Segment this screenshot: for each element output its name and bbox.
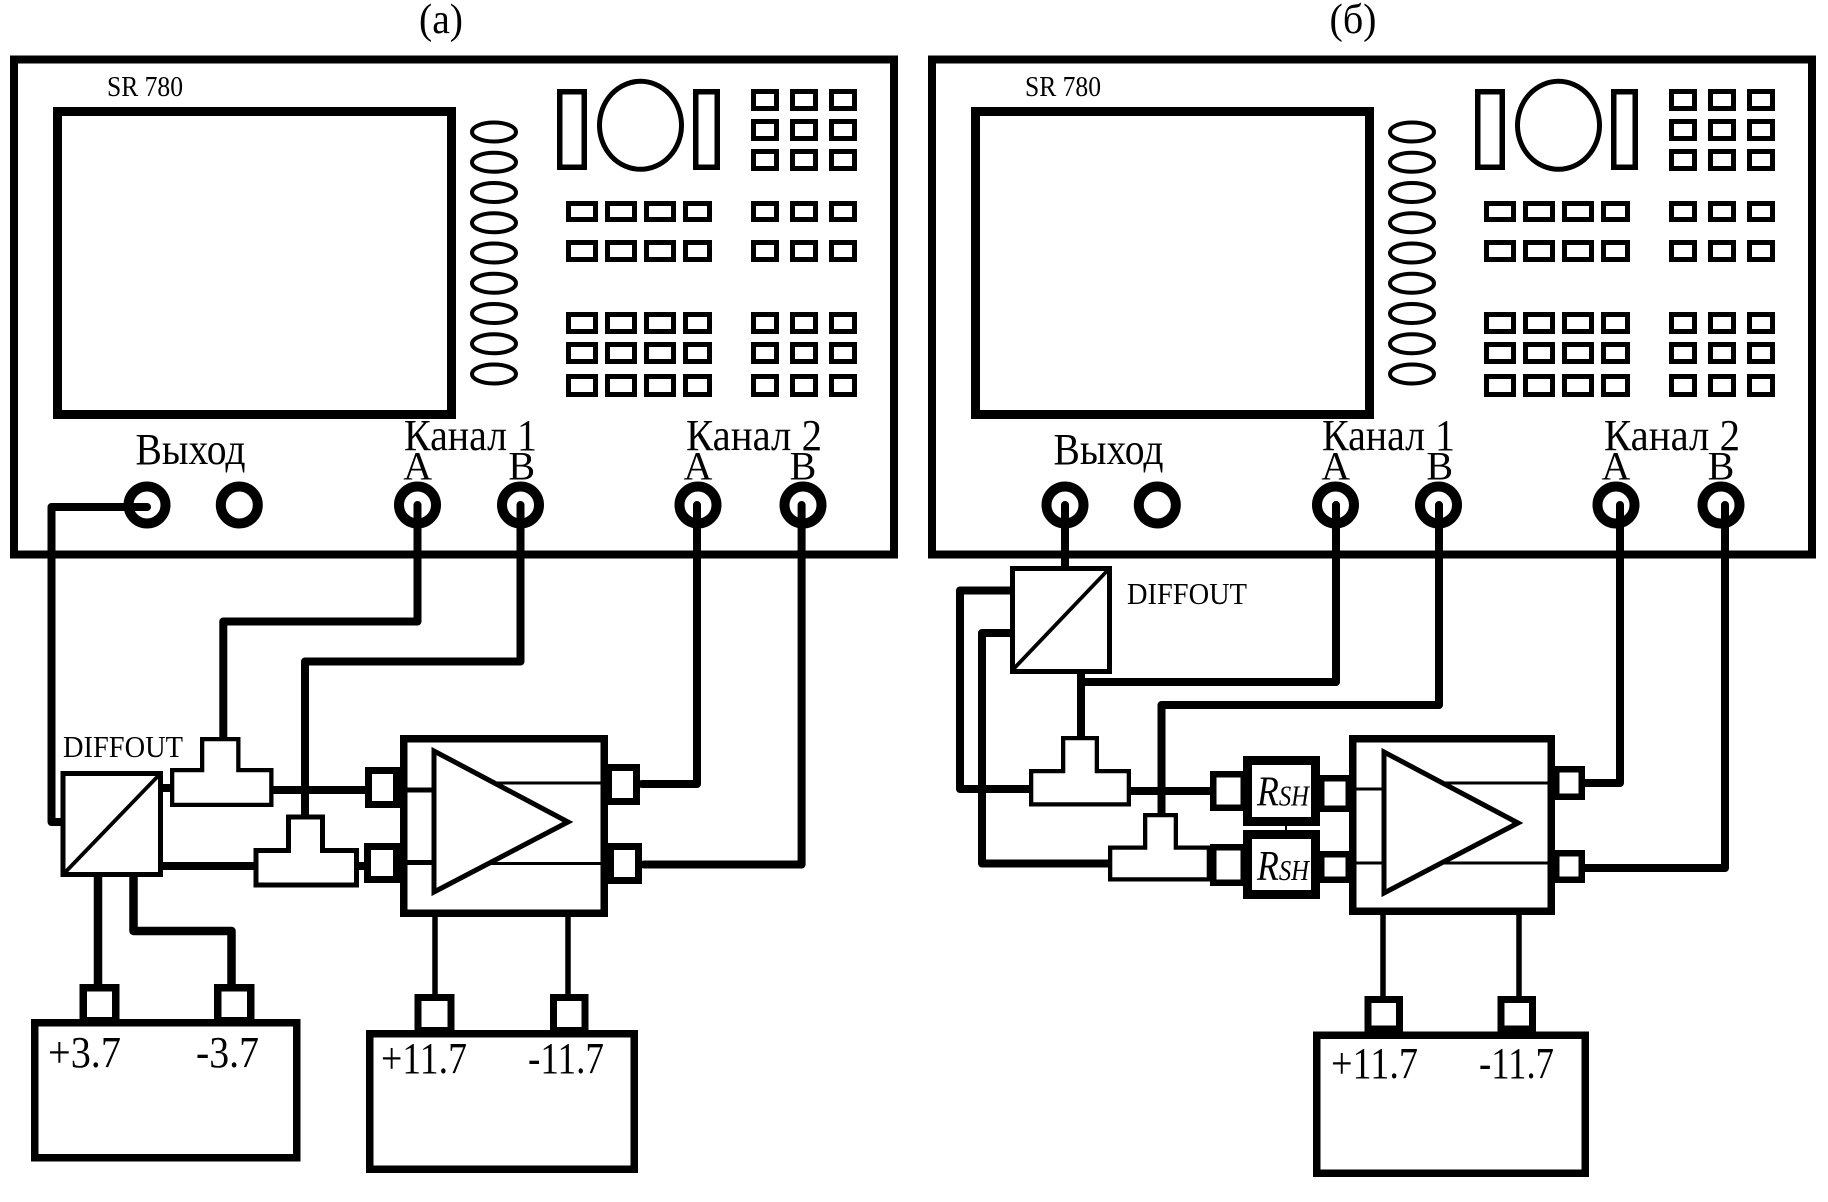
resistor RSH1 box (1248, 761, 1316, 822)
battery box 11.7V (b) (1317, 1035, 1586, 1173)
resistor RSH1 left port (1213, 774, 1244, 808)
amplifier output port top (a) (609, 768, 637, 802)
wire: Vyhod(a) to DIFFOUT(a) input (52, 507, 148, 822)
amplifier triangle (b) (1384, 752, 1518, 893)
instrument panel (a) SR 780 (14, 60, 894, 555)
amplifier inner rail top-right (a) (490, 782, 606, 785)
wire: DIFFOUT(a) upper output to T1 (160, 784, 180, 792)
svg-text:+11.7: +11.7 (381, 1034, 467, 1083)
T-splitter 2 (a) (256, 817, 357, 885)
wire: DIFFOUT(b) bottom pin to T1(b) stem (1077, 672, 1085, 741)
amplifier inner rail bottom-left (b) (1353, 862, 1386, 865)
amplifier inner rail bottom-right (b) (1438, 862, 1551, 865)
amplifier output port top (b) (1556, 769, 1582, 797)
T-splitter 2 (b) (1110, 815, 1209, 879)
svg-text:DIFFOUT: DIFFOUT (1127, 576, 1247, 611)
battery terminal +3.7 (83, 988, 116, 1021)
svg-text:(б): (б) (1330, 0, 1377, 43)
wire: Kanal1 B (b) to T2(b) stem (1162, 505, 1440, 818)
battery terminal -3.7 (218, 988, 251, 1021)
T-splitter 1 (b) (1031, 738, 1129, 804)
resistor RSH2 box (1248, 835, 1316, 895)
wire: Kanal2 B (b) to amplifier(b) output bottom (1582, 505, 1725, 868)
amplifier input port bottom (a) (368, 847, 397, 880)
amplifier output port bottom (b) (1556, 853, 1582, 880)
resistor RSH1 right port (1321, 778, 1349, 809)
wire: Vyhod(b) to DIFFOUT(b) (1061, 505, 1069, 572)
DIFFOUT box (b) (1013, 569, 1110, 672)
DIFFOUT diagonal (a) (65, 775, 160, 874)
wire: amplifier(a) +supply pin (432, 915, 438, 1000)
wire: Kanal2 B (a) to amplifier output bottom (644, 505, 802, 865)
battery box 3.7V (a) (35, 1023, 297, 1158)
svg-text:DIFFOUT: DIFFOUT (63, 729, 183, 764)
wire: Kanal1 A (b) down to junction (1081, 505, 1336, 682)
resistor RSH2 left port (1213, 847, 1244, 883)
svg-text:+3.7: +3.7 (48, 1028, 121, 1077)
amplifier triangle (a) (434, 751, 568, 892)
wire: DIFFOUT(b) lower-left output loop to T2(b) (982, 633, 1116, 864)
amplifier inner rail top-left (a) (404, 788, 436, 793)
wire: amplifier(a) -supply pin (565, 915, 571, 1000)
DIFFOUT box (a) (63, 774, 161, 875)
T-splitter 1 (a) (172, 739, 271, 805)
wire: amplifier(b) +supply pin (1380, 913, 1386, 1000)
wire: T1(a) output to amplifier input top (268, 786, 369, 794)
wire: Kanal1 B (a) to T-splitter 2 stem (305, 505, 521, 819)
wire: amplifier(b) -supply pin (1516, 913, 1522, 1000)
amplifier input port top (a) (369, 771, 397, 805)
battery terminal +11.7 (b) (1368, 1000, 1400, 1030)
RSH link line (1285, 822, 1287, 834)
resistor RSH2 right port (1321, 854, 1349, 880)
battery terminal -11.7 (b) (1501, 1000, 1533, 1030)
wire: DIFFOUT(a) -supply pin (134, 875, 232, 988)
svg-text:-11.7: -11.7 (528, 1034, 604, 1083)
svg-text:-3.7: -3.7 (196, 1028, 259, 1077)
svg-text:+11.7: +11.7 (1331, 1039, 1418, 1088)
amplifier box (a) (404, 739, 605, 914)
DIFFOUT diagonal (b) (1013, 571, 1108, 670)
svg-text:(а): (а) (419, 0, 463, 43)
battery terminal -11.7 (a) (554, 998, 586, 1031)
wire: DIFFOUT(b) upper-left output loop to T1(b) (960, 591, 1036, 790)
wire: DIFFOUT(a) lower output to T2 (160, 862, 262, 870)
wire: Kanal2 A (b) to amplifier(b) output top (1582, 505, 1620, 783)
wire: T2(a) output to amplifier input bottom (352, 862, 368, 870)
amplifier inner rail bottom-right (a) (488, 862, 606, 865)
amplifier inner rail bottom-left (a) (404, 860, 436, 865)
amplifier inner rail top-right (b) (1440, 782, 1551, 785)
wire: T1(b) output to resistor RSH1 (1126, 787, 1222, 795)
amplifier inner rail top-left (b) (1353, 788, 1386, 791)
svg-text:-11.7: -11.7 (1479, 1039, 1554, 1088)
wire: Kanal2 A (a) to amplifier output top (642, 505, 697, 784)
instrument panel (b) SR 780 (932, 60, 1812, 555)
battery box 11.7V (a) (370, 1034, 635, 1170)
wire: DIFFOUT(a) +supply pin (94, 875, 103, 990)
amplifier box (b) (1353, 739, 1552, 912)
battery terminal +11.7 (a) (418, 998, 451, 1031)
wire: T2(b) output to resistor RSH2 (1205, 862, 1222, 870)
wire: Kanal1 A (a) to T-splitter 1 stem (223, 505, 417, 741)
amplifier output port bottom (a) (611, 847, 639, 881)
